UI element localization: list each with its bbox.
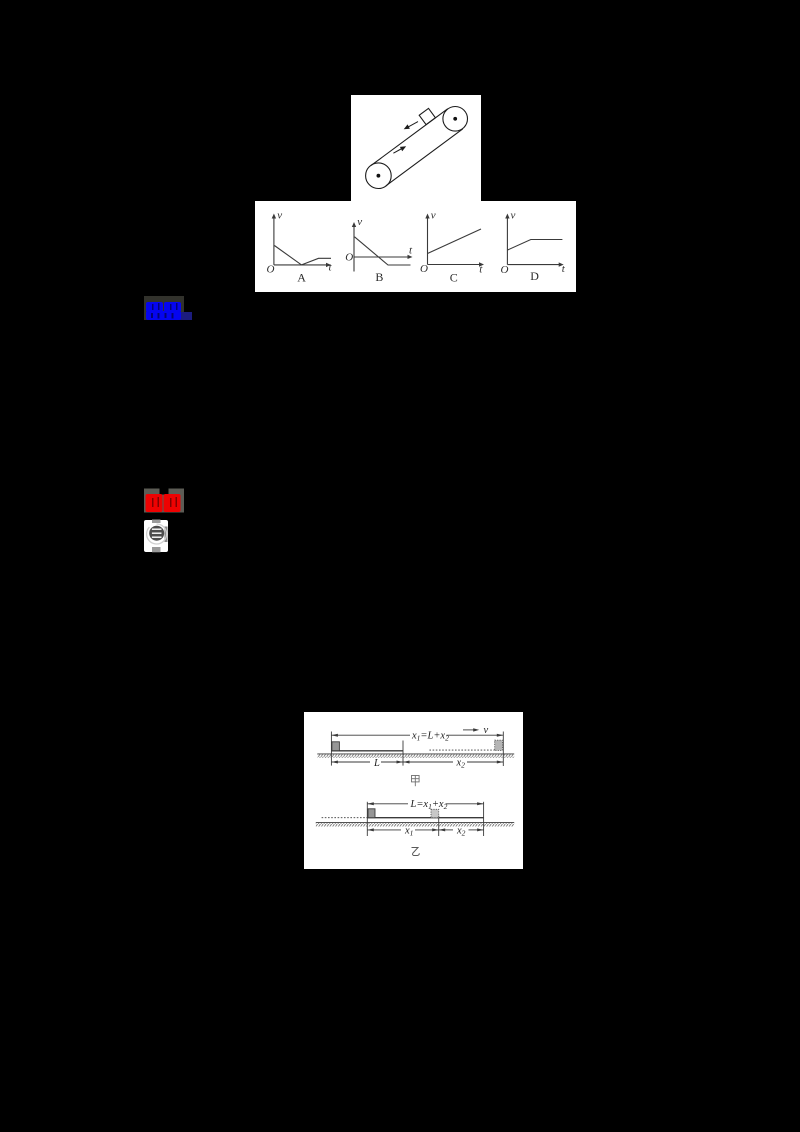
jia ground line — [317, 753, 514, 755]
plank-block displacement diagram panel — [304, 712, 523, 869]
conveyor belt figure panel — [351, 95, 481, 201]
yi block — [368, 809, 375, 818]
v-t graphs panel A B C D — [255, 201, 576, 292]
graph C curve — [428, 229, 482, 254]
jia dimension arrowheads — [331, 734, 338, 737]
jia right tick — [502, 732, 504, 767]
list icon — [141, 516, 173, 556]
blue glyph blob — [146, 302, 181, 320]
jia dashed plank position — [429, 749, 495, 751]
yi dashed block — [431, 809, 439, 817]
jia block — [332, 742, 340, 751]
yi top dimension line — [367, 803, 408, 805]
svg-text:v: v — [357, 216, 362, 228]
gray backdrop rect — [144, 489, 184, 513]
jia lower dimension line L — [331, 761, 370, 763]
svg-text:B: B — [375, 270, 383, 284]
svg-text:v: v — [484, 725, 489, 736]
graph D curve — [507, 240, 562, 251]
red analysis tag — [140, 487, 190, 515]
graph A axes — [273, 217, 275, 265]
yi caption — [412, 848, 420, 856]
pulley upper-right — [443, 107, 468, 132]
belt upper edge — [371, 109, 448, 166]
graph B axes — [353, 226, 355, 272]
navy swatch — [177, 312, 192, 320]
gray bar right — [165, 527, 168, 543]
gray tab bottom — [152, 547, 161, 552]
jia ground hatching — [317, 754, 514, 757]
block on belt — [419, 108, 435, 124]
svg-text:L: L — [373, 758, 380, 769]
svg-text:A: A — [297, 270, 306, 284]
yi lower dimension line x1 — [367, 829, 401, 831]
gray tab top — [152, 520, 161, 524]
backdrop notch — [160, 489, 169, 495]
graph B curve — [355, 237, 411, 265]
yi dashed plank position — [322, 817, 368, 819]
pulley axle dot lower — [377, 174, 381, 178]
jia mid tick — [402, 741, 404, 766]
yi right tick — [483, 802, 485, 836]
dark circle — [149, 526, 164, 541]
svg-text:D: D — [530, 269, 539, 283]
arrow on belt pointing up-slope — [393, 147, 405, 153]
jia left tick — [330, 732, 332, 766]
jia plank top line — [331, 750, 403, 752]
jia velocity arrow — [463, 729, 476, 731]
svg-text:v: v — [431, 210, 436, 222]
white card — [144, 520, 168, 552]
three white lines — [152, 529, 162, 537]
jia lower dimension line x2 — [403, 761, 453, 763]
pulley lower-left — [366, 163, 392, 189]
svg-text:O: O — [345, 252, 353, 264]
blue answer tag — [140, 294, 198, 328]
yi ground hatching — [316, 823, 514, 826]
pulley axle dot upper — [453, 117, 457, 121]
yi dimension arrowheads — [367, 802, 374, 805]
svg-text:O: O — [267, 264, 275, 276]
open ring — [143, 520, 170, 547]
svg-text:C: C — [450, 270, 458, 284]
svg-text:O: O — [501, 264, 509, 276]
red glyph blob — [146, 494, 181, 512]
jia dashed block — [495, 740, 503, 750]
yi mid tick — [438, 816, 440, 837]
svg-text:O: O — [420, 263, 428, 275]
arrow above belt pointing down-slope — [405, 122, 418, 129]
graph C axes — [427, 217, 429, 265]
graph D axes — [506, 217, 508, 265]
yi plank top line — [367, 817, 483, 819]
yi ground line — [316, 822, 514, 824]
jia top dimension line — [331, 734, 410, 736]
belt lower edge — [386, 129, 463, 186]
jia caption — [412, 776, 420, 787]
axis arrowheads — [272, 214, 276, 219]
jia v arrowhead — [473, 728, 479, 731]
dark backdrop rect — [144, 296, 184, 320]
svg-text:v: v — [277, 209, 282, 221]
yi lower dimension line x2 — [439, 829, 453, 831]
yi left tick — [366, 802, 368, 836]
graph A curve — [274, 246, 331, 265]
svg-text:v: v — [511, 210, 516, 222]
